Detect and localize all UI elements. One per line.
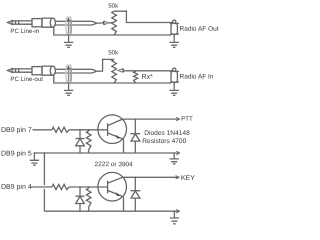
wire: pot top to connector bbox=[114, 11, 173, 22]
PTT output line bbox=[123, 118, 178, 120]
bus wire row4 bbox=[44, 210, 177, 212]
bus wire row1 bbox=[54, 27, 171, 35]
svg-text:2222 or 3904: 2222 or 3904 bbox=[94, 161, 133, 168]
3.5mm plug PC Line-in J1 bbox=[8, 21, 13, 25]
resistor Rx* bbox=[134, 71, 138, 83]
svg-text:Resistors 4700: Resistors 4700 bbox=[142, 138, 186, 145]
potentiometer 50k (row1) bbox=[112, 11, 117, 35]
svg-text:PC Line-out: PC Line-out bbox=[10, 76, 43, 83]
ground under connector row1 bbox=[173, 34, 175, 42]
diode D1 node-to-bus bbox=[79, 130, 81, 153]
ground under connector row2 bbox=[173, 82, 175, 90]
base resistor row4 bbox=[52, 184, 69, 189]
svg-text:Rx*: Rx* bbox=[142, 74, 154, 81]
resistor 4700 row4 bbox=[88, 187, 90, 211]
potentiometer 50k (row2) bbox=[112, 59, 117, 83]
diode D4 collector-to-bus bbox=[134, 177, 136, 211]
svg-text:DB9 pin 4: DB9 pin 4 bbox=[1, 184, 32, 191]
wire: cable to wiper arrow bbox=[97, 22, 104, 24]
svg-text:PTT: PTT bbox=[181, 116, 193, 123]
svg-text:DB9 pin 7: DB9 pin 7 bbox=[1, 127, 32, 134]
wire from DB9 pin 7 bbox=[33, 129, 52, 131]
transformer T1 bbox=[66, 17, 69, 34]
bus wire row2 bbox=[54, 75, 171, 83]
ground on pin5 bus bbox=[33, 153, 35, 160]
ground right row3 bbox=[173, 153, 175, 159]
svg-text:Diodes 1N4148: Diodes 1N4148 bbox=[144, 130, 190, 137]
wiper arrow of pot row1 (points right) bbox=[104, 21, 109, 25]
svg-text:PC Line-in: PC Line-in bbox=[10, 28, 39, 35]
svg-text:Radio AF Out: Radio AF Out bbox=[180, 26, 219, 33]
wire to base Q1 bbox=[69, 129, 108, 131]
diode D2 collector-to-bus bbox=[134, 119, 136, 153]
diode D3 node-to-bus bbox=[79, 187, 81, 211]
transistor Q2 bbox=[98, 172, 127, 201]
resistor 4700 row3 bbox=[88, 130, 90, 153]
transistor Q1 bbox=[98, 115, 127, 144]
3.5mm plug PC Line-out J2 bbox=[8, 69, 13, 73]
KEY output line bbox=[123, 176, 178, 178]
wire from DB9 pin 4 bbox=[31, 186, 52, 188]
radio connector Radio AF Out bbox=[173, 20, 176, 23]
svg-text:Radio AF In: Radio AF In bbox=[180, 74, 214, 81]
transformer T2 bbox=[66, 65, 69, 82]
radio connector Radio AF In bbox=[173, 68, 176, 71]
svg-text:50k: 50k bbox=[108, 49, 119, 56]
emitter wire Q1 bbox=[123, 139, 125, 153]
bus wire row3 (DB9 pin 5) bbox=[34, 152, 179, 154]
svg-text:DB9 pin 5: DB9 pin 5 bbox=[1, 151, 32, 158]
cable from plug J2 bbox=[55, 69, 96, 73]
wiper arrow of pot row2 (points left) bbox=[118, 69, 123, 73]
base resistor row3 bbox=[52, 127, 69, 132]
wire pin5 bus to row4 bus (hops over pin4 wire) bbox=[43, 153, 45, 211]
ground right row4 bbox=[173, 211, 175, 218]
svg-text:50k: 50k bbox=[108, 3, 119, 10]
wire: cable up to pot top row2 bbox=[97, 59, 114, 71]
svg-text:KEY: KEY bbox=[181, 175, 195, 182]
ground under T1 bbox=[68, 35, 70, 42]
wire: wiper to connector row2 bbox=[123, 70, 172, 72]
junction dots bbox=[174, 210, 176, 212]
ground under T2 bbox=[68, 83, 70, 90]
emitter wire Q2 bbox=[123, 197, 125, 211]
cable from plug J1 bbox=[55, 21, 96, 25]
